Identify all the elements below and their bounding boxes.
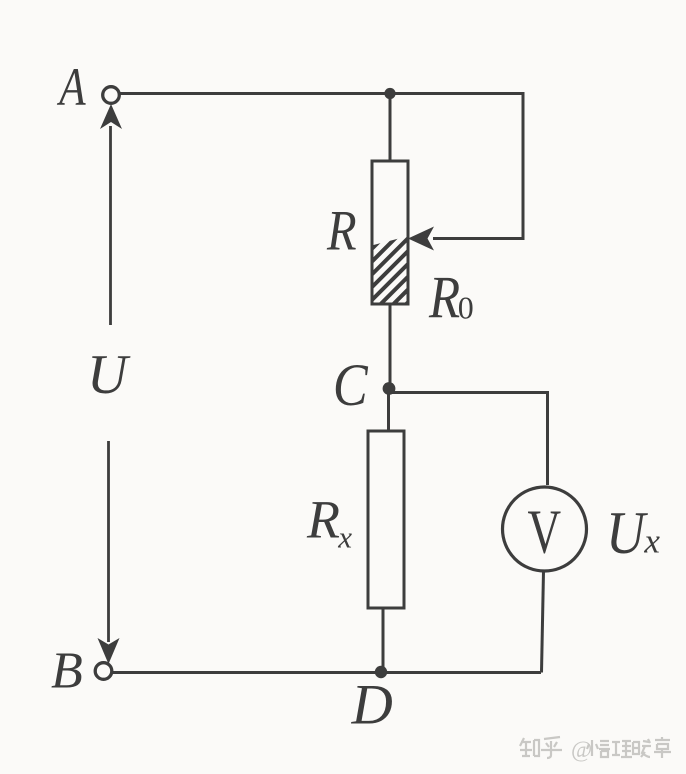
svg-text:C: C bbox=[333, 353, 369, 419]
svg-text:B: B bbox=[51, 643, 83, 700]
svg-text:U: U bbox=[87, 344, 131, 406]
svg-text:V: V bbox=[528, 497, 562, 566]
svg-text:U: U bbox=[606, 500, 649, 566]
svg-text:@: @ bbox=[571, 737, 592, 762]
svg-text:x: x bbox=[337, 519, 352, 554]
svg-text:D: D bbox=[351, 674, 393, 737]
svg-text:A: A bbox=[57, 57, 87, 118]
svg-text:R: R bbox=[428, 265, 460, 332]
svg-text:0: 0 bbox=[458, 290, 474, 326]
svg-text:R: R bbox=[326, 200, 357, 262]
svg-text:R: R bbox=[306, 490, 340, 550]
svg-text:x: x bbox=[643, 522, 660, 561]
